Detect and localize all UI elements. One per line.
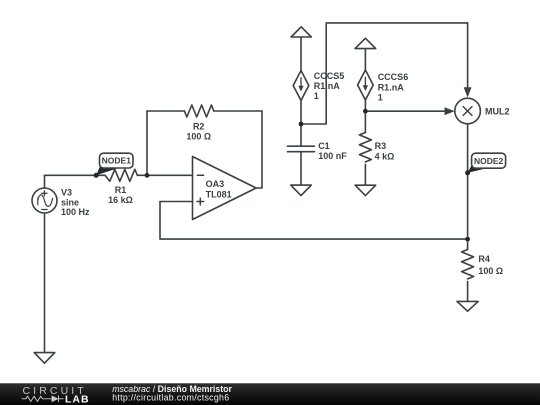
junction A dot [145,173,150,178]
CCCS5 arrow inside [300,78,302,87]
svg-text:1: 1 [378,92,383,102]
junction bottom rail / R4 dot [465,237,470,242]
wire top rail down to MUL2 top input [467,23,469,88]
wire MUL2 output down [467,124,469,239]
svg-text:R1.nA: R1.nA [378,82,405,92]
junction CCCS6/R3 dot [363,109,368,114]
svg-text:R3: R3 [375,141,387,151]
svg-text:NODE1: NODE1 [102,156,132,166]
feedback wire right vertical to output [256,111,262,188]
feedback wire top right segment [214,110,262,112]
svg-text:100 Hz: 100 Hz [61,207,90,217]
svg-text:100 Ω: 100 Ω [186,132,211,142]
NODE2 flag [468,153,506,173]
junction CCCS5/C1 dot [299,122,304,127]
svg-text:TL081: TL081 [206,190,232,200]
ground under R3 [355,185,376,195]
resistor R2 [184,105,213,117]
svg-text:V3: V3 [61,188,72,198]
voltage source V3 [32,188,57,213]
resistor R3 [359,133,371,162]
feedback wire top left segment [147,110,184,112]
MUL2 X symbol [463,107,472,116]
svg-text:OA3: OA3 [206,179,225,189]
wire V3 top to main node row [44,175,46,188]
wire R4 junction lead [467,239,469,249]
V3 minus sign [42,209,47,211]
MUL2 left arrowhead [445,108,454,115]
wire R4 to ground [467,281,469,301]
svg-text:CCCS5: CCCS5 [314,71,345,81]
svg-text:R2: R2 [193,121,205,131]
wire CCCS5 to C1 [300,101,302,147]
svg-text:R4: R4 [478,254,490,264]
NODE1 flag [96,153,133,175]
svg-text:http://circuitlab.com/ctscgh6: http://circuitlab.com/ctscgh6 [112,392,229,402]
CCCS5 diamond [293,71,309,101]
wire top-left horizontal to R1 [45,174,106,176]
resistor R1 [105,169,137,181]
wire C1 to ground [300,152,302,185]
CCCS5 flipped ground (top) [291,27,311,37]
svg-text:100 nF: 100 nF [318,151,347,161]
svg-text:CCCS6: CCCS6 [378,72,409,82]
wire R1 to junction A [137,174,147,176]
multiplier MUL2 circle [455,98,481,124]
junction dots [94,109,470,242]
svg-text:R1: R1 [115,185,127,195]
logo resistor squiggle + diode [22,396,64,403]
op-amp plus symbol [197,198,204,205]
wire junction A to op-amp inverting input [147,174,193,176]
ground under C1 [291,185,312,196]
CCCS6 diamond [358,70,374,100]
wire CCCS6 to R3 [364,100,366,133]
wire CCCS5 top [300,37,302,71]
svg-text:16 kΩ: 16 kΩ [108,195,133,205]
CCCS6 arrow inside [364,77,366,86]
wire junction CCCS5 right to top rail [301,23,468,124]
op-amp OA3 triangle [193,157,257,220]
wire op-amp noninverting input down to bottom rail [160,202,468,240]
footer bar [0,383,540,405]
svg-text:1: 1 [314,91,319,101]
MUL2 top arrowhead [464,88,471,97]
feedback wire left vertical [146,111,148,175]
svg-text:MUL2: MUL2 [485,107,510,117]
CCCS6 flipped ground (top) [355,38,376,48]
node dot NODE1 attach [94,173,99,178]
svg-text:C1: C1 [318,141,330,151]
svg-text:sine: sine [61,197,79,207]
resistor R4 [462,250,474,279]
V3 plus sign [42,191,47,196]
wire CCCS6 top [364,49,366,70]
logo diode triangle [52,395,59,402]
svg-text:4 kΩ: 4 kΩ [375,151,395,161]
capacitor C1 [288,146,315,152]
svg-text:R1.nA: R1.nA [314,81,341,91]
V3 sine glyph [38,195,53,207]
svg-text:100 Ω: 100 Ω [478,266,503,276]
wire CCCS6 junction to MUL2 left input [365,110,445,112]
svg-text:NODE2: NODE2 [474,156,504,166]
ground under R4 [457,301,478,311]
node dot NODE2 attach [465,170,470,175]
wire R3 to ground [364,164,366,185]
op-amp minus symbol [197,174,203,176]
ground under V3 [34,214,55,363]
svg-text:LAB: LAB [65,394,90,405]
